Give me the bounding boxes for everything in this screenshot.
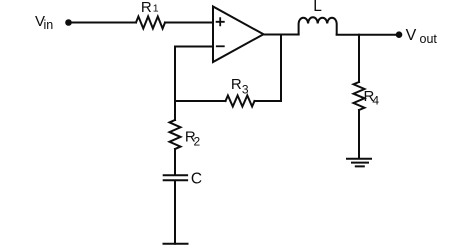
- resistor R4: [354, 82, 365, 110]
- resistor R3: [226, 96, 255, 107]
- svg-text:V: V: [406, 27, 417, 44]
- wire inductor to Vout: [337, 34, 396, 36]
- svg-text:out: out: [420, 32, 438, 46]
- wire R4 to ground: [358, 110, 360, 159]
- svg-text:4: 4: [372, 94, 379, 108]
- ground bar bottom: [164, 243, 188, 245]
- svg-text:L: L: [313, 0, 322, 15]
- svg-text:R: R: [231, 76, 242, 93]
- resistor R2: [170, 120, 181, 149]
- ground under R4: [347, 159, 371, 167]
- capacitor C: [164, 175, 187, 180]
- op-amp minus sign: [217, 45, 224, 47]
- inductor L: [299, 17, 337, 34]
- node Vin terminal dot: [65, 19, 72, 26]
- wire C to ground: [174, 181, 176, 243]
- resistor R1: [136, 17, 165, 29]
- svg-text:R: R: [141, 0, 152, 16]
- wire R2 to C: [174, 149, 176, 174]
- wire R1 to op-amp + input: [165, 22, 213, 24]
- wire down to R4: [358, 35, 360, 82]
- svg-text:3: 3: [242, 82, 249, 96]
- wire Vin to R1: [70, 22, 136, 24]
- wire op-amp output: [264, 34, 299, 36]
- svg-text:in: in: [44, 18, 54, 32]
- node Vout terminal dot: [396, 31, 403, 38]
- wire right feedback vertical: [280, 35, 282, 102]
- wire node to R3: [175, 100, 226, 102]
- wire left feedback vertical: [174, 47, 176, 121]
- svg-text:C: C: [191, 171, 202, 188]
- svg-text:1: 1: [153, 3, 159, 15]
- op-amp U1: [213, 7, 264, 63]
- op-amp plus sign: [217, 18, 224, 25]
- wire minus input: [175, 46, 213, 48]
- wire R3 to right vertical: [255, 100, 282, 102]
- svg-text:2: 2: [194, 134, 201, 148]
